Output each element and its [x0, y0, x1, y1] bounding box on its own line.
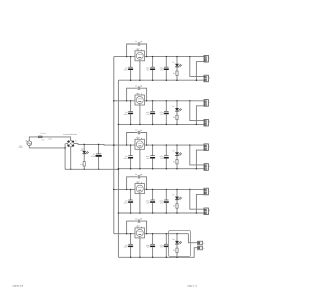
capacitor C5c: [160, 234, 169, 258]
capacitor C4a: [124, 189, 133, 213]
wire tube cathode lead stage 2: [139, 105, 141, 124]
bridge rectifier B1: [66, 140, 75, 147]
svg-text:R: R: [209, 76, 211, 79]
wire bus stage 4: [114, 188, 204, 190]
capacitor C7 filter: [91, 144, 102, 169]
capacitor C4f loop cap: [135, 173, 142, 179]
capacitor C5f loop cap: [135, 217, 142, 223]
junction stage 3 gnd x=130.6: [130, 168, 132, 170]
capacitor C2c: [160, 101, 169, 125]
junction stage 5 gnd x=130.6: [130, 257, 132, 259]
svg-text:R6: R6: [80, 163, 82, 166]
svg-text:25V: 25V: [160, 246, 164, 249]
junction J3a return / gnd: [196, 168, 198, 170]
junction J1a return / gnd: [196, 79, 198, 81]
svg-text:Graetz B250C1000: Graetz B250C1000: [63, 133, 77, 136]
junction stage 3 gnd x=152.6: [152, 168, 154, 170]
svg-text:400V: 400V: [124, 246, 129, 249]
capacitor C2a: [124, 101, 133, 125]
connector J3b: [204, 164, 211, 171]
fuse F1: [38, 132, 45, 142]
capacitor C1c: [160, 57, 169, 81]
svg-text:D5: D5: [172, 238, 174, 241]
connector J3a: [204, 144, 210, 151]
svg-text:C3: C3: [135, 129, 137, 132]
tube U3 regulator box: [135, 136, 145, 149]
svg-text:50V: 50V: [147, 246, 151, 249]
svg-text:D4: D4: [172, 194, 174, 197]
junction stage 1 gnd x=166.3: [166, 79, 168, 81]
resistor R6: [80, 162, 85, 170]
connector J5a: [198, 241, 203, 245]
wire tube cathode lead stage 1: [139, 61, 141, 80]
connector J2b: [204, 119, 211, 126]
junction stage 1 bus x=177.0: [176, 56, 177, 57]
svg-text:50V: 50V: [147, 157, 151, 160]
junction stage 5 gnd x=152.6: [152, 257, 154, 259]
svg-text:L: L: [209, 57, 210, 60]
wire AC neutral drop: [64, 144, 66, 170]
connector J1a: [204, 55, 210, 62]
junction stage 3 bus x=166.3: [166, 144, 167, 145]
wire ground line stage 2: [118, 123, 204, 125]
svg-text:B: B: [203, 247, 205, 250]
junction stage 4 bus x=166.3: [166, 189, 167, 190]
wire bus to connector J3b pin1: [190, 145, 204, 165]
wire connector J3a pin2 to ground: [196, 150, 204, 169]
svg-text:amp5x.sch: amp5x.sch: [13, 285, 24, 288]
junction stage 4 bus x=177.0: [176, 189, 177, 190]
wire tube cathode lead stage 3: [139, 149, 141, 168]
capacitor C2f loop cap: [135, 84, 142, 90]
junction rail B / input gnd: [118, 169, 120, 171]
wire bus stage 1: [114, 56, 204, 58]
wire top lead to bridge: [42, 137, 70, 140]
wire bus to connector J2b pin1: [190, 101, 204, 121]
junction D6 bottom: [83, 169, 85, 171]
junction stage 1 gnd x=130.6: [130, 79, 132, 81]
wire bus to connector J4b pin1: [190, 189, 204, 209]
wire connector J1a pin2 to ground: [196, 62, 204, 81]
capacitor C5a: [124, 234, 133, 258]
junction C7 top: [98, 144, 100, 146]
wire connector J2a pin2 to ground: [196, 106, 204, 125]
wire tube cathode lead stage 4: [139, 194, 141, 213]
svg-text:R2: R2: [173, 116, 175, 119]
connector J2a: [204, 100, 210, 107]
svg-text:A: A: [203, 242, 205, 245]
junction stage 1 bus x=152.6: [152, 56, 153, 57]
junction stage 4 bus x=130.6: [130, 189, 131, 190]
junction stage 4 gnd x=152.6: [152, 212, 154, 214]
capacitor C4c: [160, 189, 169, 213]
junction stage 3 gnd x=177.0: [176, 168, 178, 170]
svg-text:C4: C4: [135, 173, 137, 176]
wire feedback loop stage 2: [127, 88, 138, 101]
junction rail A / input: [113, 144, 115, 146]
svg-text:D2: D2: [172, 105, 174, 108]
junction stage 2 bus x=146.6: [146, 100, 147, 101]
junction stage 1 bus x=166.3: [166, 56, 167, 57]
wire feedback loop stage 4: [127, 177, 138, 190]
svg-text:25V: 25V: [160, 69, 164, 72]
svg-text:L: L: [209, 189, 210, 192]
wire ground line stage 5: [118, 256, 190, 258]
junction C7 bottom: [98, 169, 100, 171]
capacitor C1b: [146, 57, 155, 81]
resistor R5: [173, 248, 178, 257]
connector J4b: [204, 208, 211, 215]
svg-text:page 1 / 1: page 1 / 1: [188, 285, 199, 288]
junction stage 3 bus x=189.8: [189, 144, 191, 146]
LED D2: [172, 101, 182, 115]
junction stage 3 gnd x=139.9: [139, 168, 141, 170]
svg-text:0.5A: 0.5A: [41, 139, 45, 142]
svg-text:L: L: [209, 101, 210, 104]
svg-text:230V: 230V: [48, 138, 53, 141]
junction stage 2 bus x=189.8: [189, 100, 191, 102]
wire DC plus line: [74, 144, 114, 146]
junction stage 4 gnd x=130.6: [130, 212, 132, 214]
junction stage 1 bus x=130.6: [130, 56, 131, 57]
junction rail B stage 2: [118, 124, 120, 126]
svg-text:T-Lond: T-Lond: [40, 132, 45, 135]
junction J2a return / gnd: [196, 124, 198, 126]
svg-text:C2: C2: [135, 84, 137, 87]
tube U4 regulator box: [135, 180, 145, 193]
junction stage 2 gnd x=130.6: [130, 124, 132, 126]
junction stage 5 bus x=126.6: [126, 233, 127, 234]
junction stage 1 bus x=126.6: [126, 56, 127, 57]
junction stage 5 bus x=130.6: [130, 233, 131, 234]
junction stage 4 bus x=189.8: [189, 189, 191, 191]
wire bridge minus drop: [70, 147, 72, 169]
junction stage 4 gnd x=139.9: [139, 212, 141, 214]
tube U1 regulator box: [135, 48, 145, 61]
connector J5b: [198, 246, 203, 250]
junction rail A stage 2: [113, 100, 115, 102]
wire feedback loop stage 1: [127, 44, 138, 57]
junction bridge minus to gnd: [70, 169, 72, 171]
junction stage 3 bus x=126.6: [126, 144, 127, 145]
capacitor C1f loop cap: [135, 40, 142, 46]
wire rail A (+DC distribution): [113, 57, 115, 234]
wire bus stage 3: [114, 144, 204, 146]
wire ground line stage 4: [118, 212, 204, 214]
wire source bottom lead: [29, 146, 65, 148]
LED D1: [172, 57, 182, 71]
svg-text:R: R: [209, 165, 211, 168]
capacitor C1a: [124, 57, 133, 81]
svg-text:R5: R5: [173, 249, 175, 252]
LED D4: [172, 189, 182, 203]
svg-text:12B4: 12B4: [136, 225, 140, 228]
junction stage 3 bus x=130.6: [130, 144, 131, 145]
junction D6 top: [83, 144, 85, 146]
svg-text:C1: C1: [135, 40, 137, 43]
junction stage 4 bus x=152.6: [152, 189, 153, 190]
resistor R4: [173, 204, 178, 213]
junction stage 3 bus x=152.6: [152, 144, 153, 145]
junction stage 5 bus x=177.0: [176, 233, 177, 234]
junction stage 3 bus x=146.6: [146, 144, 147, 145]
junction stage 3 bus x=177.0: [176, 144, 177, 145]
capacitor C4b: [146, 189, 155, 213]
junction stage 3 gnd x=166.3: [166, 168, 168, 170]
junction stage 2 bus x=177.0: [176, 100, 177, 101]
wire rail B (ground distribution): [117, 80, 119, 257]
junction rail B stage 4: [118, 212, 120, 214]
resistor R2: [173, 115, 178, 124]
tube U5 regulator box: [135, 225, 145, 238]
junction stage 5 gnd x=139.9: [139, 257, 141, 259]
capacitor C3a: [124, 145, 133, 169]
svg-text:400V: 400V: [124, 201, 129, 204]
junction stage 1 bus x=146.6: [146, 56, 147, 57]
junction stage 4 bus x=126.6: [126, 189, 127, 190]
svg-text:50V: 50V: [147, 113, 151, 116]
connector J1b: [204, 75, 211, 82]
junction stage 2 gnd x=177.0: [176, 124, 178, 126]
junction stage 1 gnd x=177.0: [176, 79, 178, 81]
svg-text:230V: 230V: [19, 146, 24, 149]
wire bus stage 5: [114, 233, 189, 235]
svg-text:50V: 50V: [147, 201, 151, 204]
svg-text:12B4: 12B4: [136, 136, 140, 139]
svg-text:R1: R1: [173, 72, 175, 75]
junction rail A stage 4: [113, 189, 115, 191]
junction stage 2 bus x=130.6: [130, 100, 131, 101]
svg-text:D3: D3: [172, 149, 174, 152]
capacitor C5b: [146, 234, 155, 258]
wire bus stage 2: [114, 100, 204, 102]
junction rail A stage 3: [113, 144, 115, 146]
svg-text:50V: 50V: [147, 69, 151, 72]
junction J4a return / gnd: [196, 212, 198, 214]
capacitor C3c: [160, 145, 169, 169]
wire bus to connector J1b pin1: [190, 57, 204, 77]
wire to connector J5b: [191, 248, 198, 258]
resistor R1: [173, 71, 178, 80]
junction stage 5 bus x=146.6: [146, 233, 147, 234]
AC source V1: [26, 140, 32, 145]
junction stage 5 gnd x=177.0: [176, 257, 178, 259]
junction stage 4 gnd x=166.3: [166, 212, 168, 214]
resistor R3: [173, 160, 178, 169]
junction stage 2 gnd x=152.6: [152, 124, 154, 126]
junction stage 1 gnd x=152.6: [152, 79, 154, 81]
wire source top lead: [29, 137, 38, 141]
LED D5: [172, 234, 182, 248]
svg-text:12B4: 12B4: [136, 92, 140, 95]
junction stage 4 gnd x=177.0: [176, 212, 178, 214]
svg-text:R3: R3: [173, 160, 175, 163]
wire tube cathode lead stage 5: [139, 238, 141, 257]
wire to connector J5a: [188, 234, 197, 243]
svg-text:400V: 400V: [124, 69, 129, 72]
zener diode D6: [80, 144, 89, 161]
junction stage 2 bus x=152.6: [152, 100, 153, 101]
wire feedback loop stage 5: [127, 221, 138, 234]
junction neutral: [64, 147, 66, 149]
svg-text:B1: B1: [75, 140, 77, 143]
wire feedback loop stage 3: [127, 133, 138, 146]
junction stage 2 bus x=126.6: [126, 100, 127, 101]
svg-text:C7: C7: [93, 153, 95, 156]
capacitor C3f loop cap: [135, 129, 142, 135]
wire ground line stage 1: [118, 79, 204, 81]
wire PSU ground line: [65, 168, 118, 170]
junction stage 2 gnd x=139.9: [139, 124, 141, 126]
enclosure box stage 5: [168, 230, 190, 256]
svg-text:R4: R4: [173, 205, 175, 208]
svg-text:D1: D1: [172, 61, 174, 64]
svg-text:25V: 25V: [160, 201, 164, 204]
junction rail B stage 3: [118, 168, 120, 170]
junction stage 2 bus x=166.3: [166, 100, 167, 101]
junction stage 2 gnd x=166.3: [166, 124, 168, 126]
junction stage 5 bus x=152.6: [152, 233, 153, 234]
LED D3: [172, 145, 182, 159]
svg-text:L: L: [209, 145, 210, 148]
junction stage 1 gnd x=139.9: [139, 79, 141, 81]
capacitor C3b: [146, 145, 155, 169]
svg-text:400V: 400V: [124, 157, 129, 160]
svg-text:R: R: [209, 209, 211, 212]
junction stage 4 bus x=146.6: [146, 189, 147, 190]
tube U2 regulator box: [135, 92, 145, 105]
svg-text:R: R: [209, 121, 211, 124]
svg-text:25V: 25V: [160, 113, 164, 116]
svg-text:D6: D6: [81, 147, 83, 150]
junction stage 5 gnd x=166.3: [166, 257, 168, 259]
svg-text:400V: 400V: [124, 113, 129, 116]
junction stage 5 bus x=166.3: [166, 233, 167, 234]
capacitor C2b: [146, 101, 155, 125]
svg-text:25V: 25V: [160, 157, 164, 160]
svg-text:12B4: 12B4: [136, 180, 140, 183]
wire ground line stage 3: [118, 168, 204, 170]
connector J4a: [204, 188, 210, 195]
wire connector J4a pin2 to ground: [196, 194, 204, 213]
svg-text:12B4: 12B4: [136, 48, 140, 51]
svg-text:C5: C5: [135, 217, 137, 220]
junction stage 1 bus x=189.8: [189, 56, 191, 58]
